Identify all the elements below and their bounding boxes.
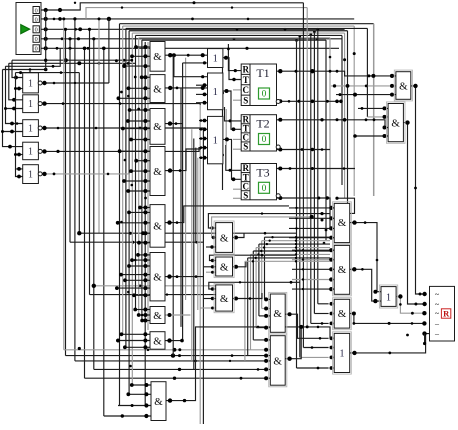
wire mb1 in2 <box>262 307 271 311</box>
svg-text:0: 0 <box>35 7 38 14</box>
svg-text:0: 0 <box>35 27 38 34</box>
wire ra2 in3 <box>292 267 334 271</box>
wire bus-right v3 <box>366 28 368 117</box>
wire mesh v1 <box>264 237 266 299</box>
wire blob <box>78 347 81 350</box>
wire bus-left v6 <box>84 48 86 378</box>
wire o3 in4 <box>199 146 208 150</box>
svg-text:1: 1 <box>386 292 391 303</box>
wire mesh v7 <box>247 258 249 356</box>
wire tr2 in2 <box>367 115 388 119</box>
wire ro4 in stubs <box>297 348 329 369</box>
wire bus-timer v1 <box>296 40 298 368</box>
wire bus-mid v3 <box>125 28 127 347</box>
wire t1 stub y89.9 <box>233 89 241 91</box>
svg-text:&: & <box>220 261 229 273</box>
wire mb2 out <box>285 325 303 361</box>
wire t3 outB <box>277 196 331 230</box>
wire net I5 <box>40 46 340 50</box>
wire t1 R in <box>227 44 241 72</box>
wire bus-mid v9 <box>144 42 146 404</box>
svg-text:&: & <box>220 293 229 305</box>
wire stair row 1 <box>12 58 132 62</box>
svg-text:S: S <box>243 190 248 200</box>
wire sa2 loop <box>210 254 297 262</box>
wire t2 outB <box>277 148 331 152</box>
wire bus-right v7 <box>329 38 331 230</box>
svg-text:&: & <box>153 335 162 347</box>
wire bus-right v2 <box>353 26 355 196</box>
wire mb1 in4 <box>256 326 270 330</box>
svg-text:&: & <box>154 396 163 408</box>
and-gate A6 <box>150 253 165 301</box>
and-gate A4 <box>150 147 165 196</box>
wire a5 out <box>165 206 289 225</box>
wire l5 out <box>42 172 129 213</box>
wire tr2 in1 <box>358 106 388 110</box>
wire o1 out <box>223 56 241 82</box>
svg-text:1: 1 <box>28 170 33 181</box>
and-gate SA1 <box>214 221 234 254</box>
wire bus-left v9 <box>98 19 100 233</box>
svg-text:&: & <box>153 166 162 178</box>
wire tr1 out <box>411 84 427 296</box>
wire t3 R in <box>226 145 241 172</box>
wire ra3 out <box>350 312 427 326</box>
wire bus-cent v1 <box>172 55 174 355</box>
wire ra1 loop <box>335 197 354 214</box>
wire mesh h4 <box>256 246 330 248</box>
and-gate A5 <box>150 205 165 248</box>
svg-text:1: 1 <box>340 349 345 360</box>
or-gate O3 <box>208 116 223 163</box>
and-gate MB1 <box>269 292 287 334</box>
wire mesh h7 <box>248 257 330 259</box>
wire left drop 2 <box>9 63 23 101</box>
wire bus-cent v7 <box>195 148 197 243</box>
wire row y350 <box>64 348 270 352</box>
wire tr2 in4 <box>353 134 388 138</box>
wire or col spine <box>44 10 47 70</box>
wire o3 in2 <box>199 127 208 131</box>
wire o2 out <box>223 89 241 131</box>
and-gate A7 <box>150 307 165 324</box>
wire t1 stub y100.2 <box>233 99 241 101</box>
svg-text:~: ~ <box>435 309 440 318</box>
svg-text:&: & <box>273 355 282 367</box>
wire row y355 <box>66 353 271 357</box>
wire a6 out <box>165 274 203 278</box>
wire row y369 <box>94 367 270 371</box>
svg-text:S: S <box>243 142 248 152</box>
wire left drop 4 <box>3 70 23 149</box>
wire ra1 in1 <box>289 206 334 210</box>
svg-text:1: 1 <box>28 78 33 89</box>
svg-text:&: & <box>153 310 162 322</box>
svg-text:T2: T2 <box>256 117 269 131</box>
and-gate RA3 <box>333 298 352 330</box>
wire mb1 in3 <box>259 314 270 318</box>
wire bus-right v1 <box>373 24 375 196</box>
svg-text:&: & <box>338 308 347 320</box>
wire sa3 out <box>233 293 263 301</box>
and-gate MB2 <box>269 334 287 387</box>
wire l3 out <box>42 126 203 130</box>
wire sa3 loop <box>209 281 300 291</box>
wire bus-right v8 <box>325 40 327 240</box>
wire bus-mid v7 <box>138 38 140 315</box>
and-gate RA1 <box>333 202 352 244</box>
wire bus-top h7 <box>139 37 330 39</box>
wire sa1 loop <box>208 212 330 230</box>
timer T1 <box>241 64 280 106</box>
svg-text:0: 0 <box>262 183 267 193</box>
wire sa1 in3 <box>206 245 216 248</box>
wire o3 in1 <box>199 119 208 123</box>
wire row y286 <box>92 284 216 288</box>
wire sa3 in3 <box>200 307 216 310</box>
or-gate L4 <box>23 142 43 160</box>
wire bus-cent v6 <box>193 139 195 370</box>
wire left drop 3 <box>6 66 23 125</box>
wire a3 inputs <box>121 108 150 142</box>
wire ra2 in2 <box>292 258 334 262</box>
wire or4 in2 <box>14 153 23 157</box>
wire a1 out <box>165 53 208 57</box>
wire mesh v2 <box>261 241 263 309</box>
wire a9 out <box>166 325 330 403</box>
wire bus-timer v4 <box>306 8 308 327</box>
wire o3 in5 <box>199 156 208 160</box>
wire ra2 in5 <box>292 287 334 291</box>
wire tr2 out <box>403 120 426 336</box>
wire mesh h5 <box>253 250 330 252</box>
svg-text:&: & <box>338 217 347 229</box>
wire ra1 in3 <box>289 226 334 230</box>
wire mesh h3 <box>259 243 330 245</box>
wire left drop 1 <box>12 60 23 79</box>
wire row y414 <box>104 414 151 418</box>
wire t1 outB <box>277 99 343 103</box>
wire ra3 stub dots <box>321 219 334 326</box>
svg-text:&: & <box>391 118 400 130</box>
wire stair row 3 <box>6 48 127 67</box>
wire bus-cent v4 <box>185 58 187 300</box>
wire bus-mid v2 <box>122 26 124 334</box>
wire a5 inputs <box>116 206 150 245</box>
or-gate L5 <box>23 165 43 184</box>
wire bus-cent v8 <box>197 158 199 310</box>
wire net I1b <box>86 6 307 19</box>
wire bus cross dots <box>116 59 147 368</box>
wire mesh h8 <box>245 260 330 262</box>
and-gate A2 <box>150 75 165 103</box>
wire sa2 in2 <box>204 265 216 268</box>
wire bus-timer v2 <box>299 37 301 357</box>
wire sa2 out <box>233 262 247 269</box>
wire mesh v8 <box>244 261 246 361</box>
wire ra3 in stubs <box>311 304 329 324</box>
wire bus-left v7 <box>89 29 91 294</box>
wire bus-mid v4 <box>128 31 130 395</box>
wire bus-left v8 <box>93 39 95 370</box>
wire sa2 in3 <box>206 271 216 274</box>
svg-text:T3: T3 <box>256 166 269 180</box>
wire vert tcol b <box>225 109 227 145</box>
wire t2 stub y149.2 <box>233 148 241 150</box>
timer T2 <box>241 114 280 151</box>
wire mb1 in1 <box>264 297 270 301</box>
wire bus-timer v7 <box>317 30 319 304</box>
wire net I1 <box>40 1 304 12</box>
wire o3 out <box>223 137 241 181</box>
wire vert tcol a <box>221 66 224 190</box>
wire bus-left v4 <box>74 19 76 361</box>
wire row y242 <box>70 241 203 244</box>
svg-text:0: 0 <box>35 36 38 43</box>
or-gate L3 <box>23 120 43 137</box>
wire a8 inputs <box>116 332 150 349</box>
wire bus-top h3 <box>126 27 368 29</box>
wire or3 in2 <box>1 130 23 134</box>
wire a4 out <box>165 149 201 173</box>
svg-text:1: 1 <box>28 99 33 110</box>
wire a9 inputs <box>126 383 151 396</box>
wire bus-left v11 <box>108 19 110 83</box>
and-gate SA2 <box>214 255 234 277</box>
wire bus-cent v9 <box>199 105 201 424</box>
wire mesh h6 <box>251 253 331 255</box>
wire o2 in3 <box>196 101 208 105</box>
wire tr1 in3 <box>336 93 396 97</box>
output block R <box>430 286 455 341</box>
wire ra2 out <box>350 267 381 303</box>
svg-text:1: 1 <box>213 136 218 147</box>
wire bus v1 elbow <box>116 339 151 408</box>
input bit cell 1 <box>33 7 39 15</box>
and-gate A9 <box>151 382 166 421</box>
wire left drop 5 <box>16 73 23 171</box>
wire l1 out <box>42 81 109 85</box>
wire stair row 5 <box>16 71 80 74</box>
or-gate L2 <box>23 95 43 113</box>
wire bus-mid v1 <box>119 24 121 406</box>
svg-text:&: & <box>153 83 162 95</box>
wire bus-cent v5 <box>191 129 193 361</box>
svg-text:S: S <box>243 96 248 106</box>
and-gate TR1 <box>394 70 412 101</box>
wire mesh h1 <box>265 236 331 238</box>
wire t3 outA <box>277 167 356 171</box>
wire bus-top h2 <box>123 25 355 27</box>
timer T3 <box>241 163 280 200</box>
wire bus-left v10 <box>103 48 105 416</box>
wire mesh v3 <box>258 244 260 316</box>
wire tr2 in3 dot <box>383 126 387 130</box>
input block IN1 <box>16 3 41 55</box>
svg-text:~: ~ <box>435 300 440 309</box>
and-gate A8 <box>150 332 165 350</box>
wire bus-right v5 <box>344 33 346 198</box>
wire bus-right v4 <box>347 31 349 214</box>
wire a1 branch <box>174 55 208 78</box>
wire t1 outA <box>277 69 396 78</box>
svg-text:1: 1 <box>28 124 33 135</box>
wire or2 in2 <box>4 107 23 111</box>
svg-text:&: & <box>153 221 162 233</box>
wire bus-top h6 <box>136 34 343 36</box>
wire bus-top h8 <box>142 39 326 41</box>
wire l4 out <box>42 148 207 154</box>
wire l2 out <box>42 101 200 105</box>
wire a4 inputs <box>118 149 150 193</box>
svg-text:1: 1 <box>213 54 218 65</box>
svg-text:T1: T1 <box>256 66 269 80</box>
wire mesh v6 <box>250 254 252 349</box>
svg-text:0: 0 <box>35 16 38 23</box>
or-gate O1 <box>208 49 223 68</box>
wire row y360 <box>75 359 270 363</box>
wire or1 in2 <box>14 87 23 91</box>
wire a6 inputs <box>115 253 150 297</box>
wire o2 in2 <box>196 93 208 97</box>
svg-text:&: & <box>399 81 408 93</box>
wire net I4 <box>40 37 343 41</box>
wire o3 in3 <box>199 137 208 141</box>
and-gate A1 <box>150 42 165 72</box>
wire bus-mid v10 <box>147 42 149 330</box>
input bit cell 2 <box>33 15 39 23</box>
wire bus-cent v3 <box>182 63 184 341</box>
wire ro4 out <box>350 331 430 355</box>
svg-text:R: R <box>242 64 249 74</box>
wire bus-left v5 <box>78 73 80 234</box>
wire bus-cent v2 <box>180 88 182 327</box>
and-gate TR2 <box>387 102 406 143</box>
or-gate O2 <box>208 73 223 110</box>
wire a8 out <box>165 338 184 342</box>
wire ro4 stub dots <box>311 322 334 370</box>
wire ra1 in2 <box>289 216 334 220</box>
wire ra2 in1 <box>292 248 334 252</box>
wire ra2 in4 <box>292 277 334 281</box>
and-gate A3 <box>150 109 165 145</box>
wire bus-top h4 <box>129 30 347 32</box>
wire bus-timer v6 <box>313 32 315 314</box>
wire t2 R in <box>225 107 242 122</box>
input block play icon <box>21 25 30 34</box>
wire row y294 <box>90 293 216 295</box>
svg-text:T: T <box>243 75 249 85</box>
wire bus-mid v6 <box>135 35 137 309</box>
svg-text:&: & <box>153 51 162 63</box>
svg-text:0: 0 <box>35 46 38 53</box>
svg-text:1: 1 <box>213 87 218 98</box>
wire sa3 in2 <box>204 297 216 300</box>
svg-text:&: & <box>220 232 229 244</box>
svg-text:&: & <box>153 121 162 133</box>
wire bus-mid v8 <box>141 40 143 320</box>
wire o1 in2 <box>183 61 208 64</box>
wire out in5 v <box>423 334 426 346</box>
input bit cell 4 <box>33 35 39 43</box>
wire br1 out <box>396 294 426 315</box>
input bit cell 3 <box>33 26 39 34</box>
and-gate SA3 <box>214 283 234 312</box>
wire mesh v4 <box>255 248 257 328</box>
wire a3 out <box>165 121 183 125</box>
wire a1 inputs <box>122 45 150 68</box>
wire t3 stub y189.2 <box>233 188 241 190</box>
wire net I3 <box>40 27 345 31</box>
svg-text:&: & <box>153 272 162 284</box>
wire bus-left v1 <box>63 19 65 350</box>
wire bus-right v6 <box>341 35 343 185</box>
svg-text:&: & <box>338 264 347 276</box>
wire bus-left v3 <box>69 39 71 242</box>
wire bus-cent v10 <box>202 128 204 424</box>
wire a2 out <box>165 86 208 90</box>
wire o2 in1 <box>196 83 208 87</box>
wire stair row 4 <box>3 68 48 72</box>
wire row y233 <box>77 231 296 235</box>
wire bus-timer v3 <box>302 3 304 348</box>
wire sa1 out <box>233 233 245 239</box>
wire ra1 out <box>350 220 381 293</box>
or-gate L1 <box>23 73 43 93</box>
wire a7 out <box>165 313 190 317</box>
wire mesh v5 <box>252 251 254 340</box>
input bit cell 5 <box>33 45 39 53</box>
wire ra1 in4 <box>289 236 334 240</box>
wire mb1 out <box>285 312 328 339</box>
wire t2 stub y139.4 <box>233 138 241 140</box>
wire mb2 in1 <box>253 338 270 342</box>
or-gate RO4 <box>333 332 352 374</box>
wire branch dots <box>62 17 319 50</box>
wire t3 stub y198.3 <box>233 197 241 199</box>
wire t2 outA <box>277 118 389 128</box>
wire bus-left v2 <box>65 29 67 355</box>
wire net I2 <box>40 17 355 21</box>
wire mesh h2 <box>262 239 330 241</box>
svg-text:C: C <box>242 85 249 95</box>
wire tr1 in2 <box>331 84 396 88</box>
wire bus-timer v5 <box>310 35 312 324</box>
and-gate RA2 <box>333 244 352 296</box>
wire bus-top h5 <box>132 32 344 34</box>
svg-text:0: 0 <box>262 134 267 144</box>
wire bus-top h1 <box>120 23 374 25</box>
svg-text:~: ~ <box>435 290 440 299</box>
or-gate BR1 <box>379 285 397 308</box>
svg-text:&: & <box>273 308 282 320</box>
svg-text:R: R <box>443 309 450 319</box>
svg-text:1: 1 <box>28 146 33 157</box>
wire row y378 <box>85 376 271 380</box>
wire stair row 2 <box>9 61 135 65</box>
wire tr1 in1 dot <box>329 52 394 78</box>
wire sa1 loop2 <box>212 215 314 239</box>
wire a7 inputs <box>133 308 150 323</box>
wire bus-mid v5 <box>131 33 133 385</box>
wire or5 in2 <box>16 169 23 179</box>
svg-text:0: 0 <box>262 89 267 99</box>
wire a2 inputs <box>117 75 151 100</box>
